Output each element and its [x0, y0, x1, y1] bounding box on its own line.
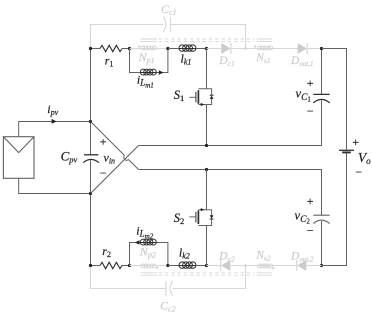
wire: node C to lk1	[168, 48, 179, 50]
svg-text:r2: r2	[102, 244, 111, 259]
wire: lk2 to node D2	[196, 265, 207, 267]
wire: Dout2 to output node	[306, 265, 321, 267]
svg-text:−: −	[354, 165, 362, 179]
node D2	[205, 264, 208, 267]
wire: Dout1 to output node	[308, 48, 322, 50]
svg-text:−: −	[306, 224, 314, 238]
transformer core T2 (gray)	[141, 273, 272, 275]
wire: Ns2 to Dout2	[273, 265, 297, 267]
transformer core T1 (gray)	[141, 39, 272, 41]
wire: r2 to node B2	[122, 265, 130, 267]
polarity star Np1	[138, 45, 141, 47]
clamp capacitor Cc2 loop (gray)	[91, 266, 246, 289]
svg-text:r1: r1	[105, 54, 114, 69]
diode Dc2 (gray, points left)	[221, 260, 231, 271]
polarity star Ns2	[272, 267, 275, 269]
winding Ns2 (gray, loops down)	[258, 264, 273, 268]
wire: gray link Np2 to node C2	[157, 265, 168, 267]
svg-text:Cc1: Cc1	[161, 2, 177, 17]
wire: PV top lead	[19, 122, 91, 137]
node: Cc2 tap (gray)	[244, 264, 247, 267]
node: C1 top on output rail	[320, 47, 323, 50]
polarity star Np2	[156, 267, 159, 269]
wire: gray link Np1 to node C	[157, 48, 168, 50]
wire: r1 to node B	[122, 48, 130, 50]
svg-text:Cpv: Cpv	[61, 149, 78, 165]
clamp capacitor Cc1 loop (gray)	[91, 25, 246, 49]
node D	[205, 47, 208, 50]
current arrow i_Lm1	[159, 70, 164, 74]
wire: bottom rail left segment	[91, 265, 101, 267]
node: input rail top PV junction	[89, 120, 92, 123]
MOSFET S2 (mirror of S1)	[189, 170, 213, 266]
svg-text:lk2: lk2	[179, 246, 190, 261]
node: input rail bottom PV junction	[89, 192, 92, 195]
svg-text:−: −	[306, 104, 314, 118]
output capacitor C2	[321, 221, 323, 266]
wire: Ns1 to Dout1	[273, 48, 298, 50]
svg-text:+: +	[306, 194, 314, 208]
winding Np1 (gray)	[141, 46, 157, 50]
svg-text:Np1: Np1	[138, 50, 155, 65]
diode Dout,2 (gray, points left)	[297, 260, 307, 271]
wire: diagonal from bottom node to upper mid rail	[91, 146, 139, 194]
wire: top rail right dark segment	[322, 49, 347, 150]
inductor Lm1	[140, 69, 156, 75]
wire: gray node D2 to Dc2	[207, 265, 221, 267]
current arrow i_pv	[52, 119, 57, 124]
svg-text:iLm2: iLm2	[136, 224, 153, 241]
svg-text:Np2: Np2	[139, 245, 156, 260]
output capacitor C1	[321, 49, 323, 95]
wire hop arc at crossing	[124, 156, 129, 161]
svg-text:Ns1: Ns1	[255, 52, 270, 65]
svg-text:S2: S2	[174, 211, 185, 226]
wire: lower mid rail	[139, 170, 322, 216]
diode Dc1 (gray)	[221, 43, 231, 54]
wire: gray link node B to Np1	[130, 48, 141, 50]
svg-text:vin: vin	[104, 151, 116, 166]
wire: gray link node B2 to Np2	[130, 265, 141, 267]
winding Ns1 (gray)	[258, 46, 273, 50]
resistor r1	[100, 45, 122, 51]
wire: diagonal from top node to lower mid rail, with hop	[91, 122, 139, 170]
node: bottom-left corner	[89, 264, 92, 267]
resistor r2	[100, 262, 122, 268]
wire: top rail left segment	[91, 48, 101, 50]
magnetizing branch Lm2: wire up-right-down	[130, 243, 168, 266]
svg-text:ipv: ipv	[47, 102, 58, 117]
wire: lk1 to node D	[196, 48, 207, 50]
PV panel PV1	[3, 137, 34, 179]
wire: node C2 to lk2	[168, 265, 179, 267]
svg-text:Vo: Vo	[358, 150, 371, 166]
svg-text:Cc2: Cc2	[160, 299, 176, 314]
wire: Dc1 to Ns1	[231, 48, 257, 50]
svg-text:lk1: lk1	[181, 52, 192, 67]
wire: upper mid rail	[139, 100, 322, 145]
svg-text:+: +	[351, 135, 359, 149]
svg-text:Dout,1: Dout,1	[290, 55, 314, 68]
node: C2 bottom on output rail	[320, 264, 323, 267]
wire: input rail (left vertical)	[90, 49, 92, 266]
winding Np2 (gray, loops down)	[141, 264, 157, 268]
wire: bottom rail right dark segment	[322, 153, 347, 266]
node B2	[128, 264, 131, 267]
capacitor Cpv	[83, 155, 99, 163]
svg-text:+: +	[306, 76, 314, 90]
node C2	[166, 264, 169, 267]
output source Vo (battery)	[339, 150, 354, 152]
wire: Dc2 to Ns2	[230, 265, 257, 267]
node: Cc1 tap (gray)	[244, 47, 247, 50]
svg-text:Dc1: Dc1	[218, 55, 234, 68]
node B	[128, 47, 131, 50]
wire: gray node D to Dc1	[207, 48, 222, 50]
magnetizing branch Lm1: wire down-right-up	[130, 49, 168, 73]
node: top-left corner	[89, 47, 92, 50]
node C	[166, 47, 169, 50]
inductor lk1	[179, 45, 196, 51]
inductor lk2	[179, 262, 196, 268]
MOSFET S1	[189, 49, 213, 146]
svg-text:Ns2: Ns2	[255, 250, 271, 263]
svg-text:Dc2: Dc2	[218, 251, 235, 264]
diode Dout,1 (gray)	[298, 43, 308, 54]
svg-text:S1: S1	[174, 88, 185, 103]
current arrow i_Lm2 (points left)	[135, 240, 140, 244]
node: S2 drain on lower mid rail	[205, 168, 208, 171]
node: S1 source on upper mid rail	[205, 144, 208, 147]
svg-text:Dout,2: Dout,2	[290, 251, 314, 264]
polarity star Ns1	[254, 45, 257, 47]
wire: PV bottom lead	[19, 178, 91, 193]
inductor Lm2	[140, 239, 156, 245]
